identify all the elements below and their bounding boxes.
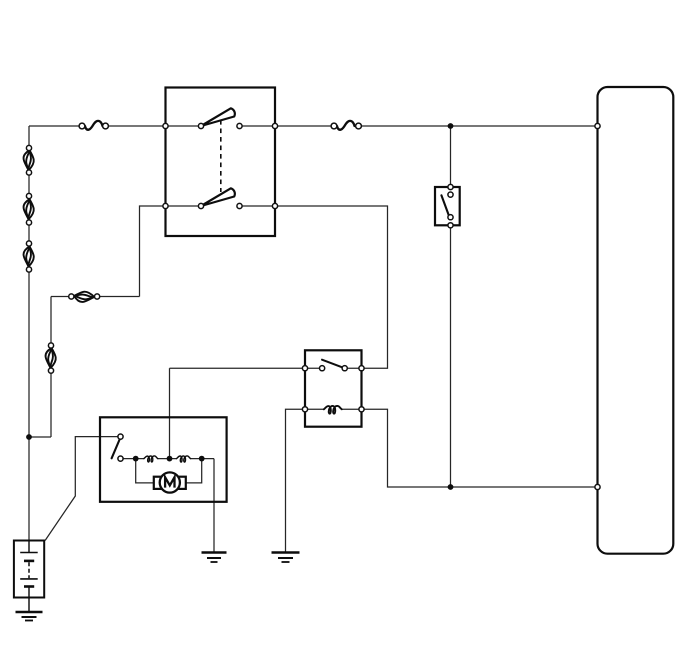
wire: fuse F2 to load left edge, through node A [359,125,598,127]
wire: fuse F1 to big switch box pole 1 [106,125,202,127]
wire: big box row2 to relay switch right side [275,206,388,368]
wire: big box pole1 throw to fuse F2 [240,125,335,127]
wire: relay internal stubs [305,368,362,409]
motor assembly box [100,417,227,502]
motor M [154,472,186,492]
wire: motor brush connections [136,459,202,483]
rail dots [133,456,139,462]
wire: inside big box row2 stubs [166,205,276,207]
field coil L2 [177,456,191,462]
blade S2 [441,195,449,215]
wire: relay switch left to motor field tap [170,367,306,369]
field coil L1 [144,456,158,462]
wire: S2 to bottom bus node B [450,225,452,487]
relay terminals [302,366,307,371]
wire: drop into motor box centre tap [169,368,171,458]
wire: relay coil right to bottom bus [362,409,598,487]
battery box [14,541,44,598]
gang dashed link [220,120,222,192]
ground: battery [16,612,43,621]
relay contact blade [322,360,344,368]
twisted link T3 [24,241,34,272]
motor switch blade [112,439,120,458]
twisted link T1 [24,145,34,175]
node A junction on top bus [448,123,454,129]
twisted link T5 (horizontal) [69,292,100,302]
terminals row 2 [163,203,168,208]
node B junction on bottom bus [448,484,454,490]
wire: battery internal stems and ground stem [28,541,30,613]
twisted link T4 [46,343,56,373]
switch box S2 [435,187,460,225]
relay box K1 [305,350,362,426]
node: battery branch junction [26,434,32,440]
wire: branch B horizontal through T5 to big box pole 2 [51,206,166,297]
terminals row 1 [163,123,168,128]
switch blade SW1a [201,108,235,126]
fuse F1 [85,121,103,130]
ground: relay coil G2 [272,553,300,563]
ground: motor rail G1 [202,553,227,563]
wire: branch B from junction to twisted link T4 [29,297,51,438]
fuse F2 [337,121,355,130]
relay coil winding [324,406,342,414]
switch assembly box U1 [166,88,276,237]
motor switch terminals [118,434,123,439]
wire: left riser (battery feed) [28,126,30,541]
battery plates [20,552,38,554]
load unit rounded box [598,87,674,554]
twisted link T2 [24,193,34,225]
wire: battery to motor box switch (diagonal) [45,437,118,541]
wire: relay coil left to ground G2 [286,409,306,552]
switch blade SW1b [201,188,235,206]
wire: node A drop to interior switch S2 [450,126,452,187]
wire: motor rail [121,459,215,553]
wire: top feed from left riser to fuse F1 [29,125,82,127]
